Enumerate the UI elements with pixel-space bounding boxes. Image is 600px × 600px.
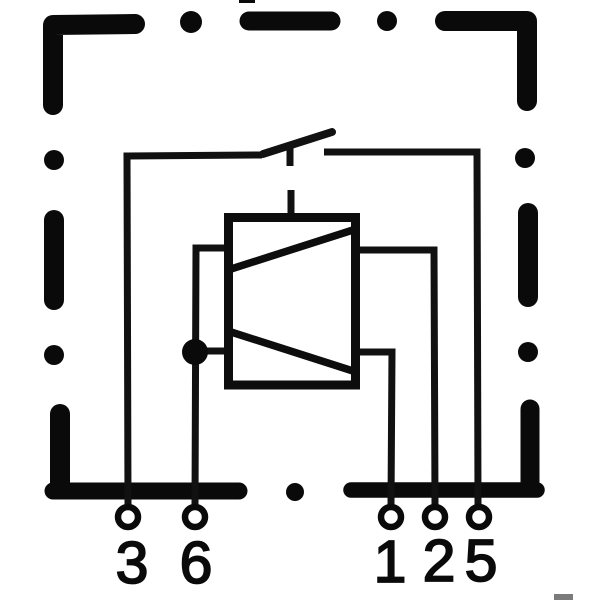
svg-text:6: 6 bbox=[180, 530, 213, 596]
svg-text:3: 3 bbox=[116, 530, 149, 596]
svg-text:5: 5 bbox=[465, 528, 498, 594]
svg-text:1: 1 bbox=[374, 529, 407, 595]
svg-text:2: 2 bbox=[423, 528, 456, 594]
